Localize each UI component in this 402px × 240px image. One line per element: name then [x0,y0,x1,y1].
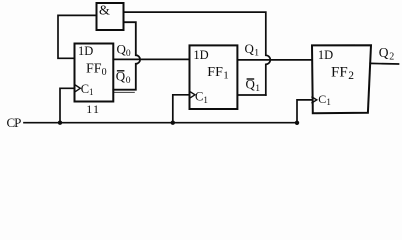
svg-text:1D: 1D [193,48,208,62]
clock edge triangle FF0 [75,85,81,93]
wire: ghost double line under Qbar0 wire [114,91,134,93]
clock edge triangle FF1 [190,91,196,98]
wire: Q2 output [370,62,398,65]
junction dot FF0 clock [58,121,62,125]
clock edge triangle FF2 [312,97,317,103]
svg-text:1D: 1D [318,48,333,62]
wire: Qbar0 feedback to AND lower input (with hop over Q0) [113,22,140,90]
svg-text:1D: 1D [78,44,93,58]
wire: Qbar1 feedback to AND top input (with hop over Q1) [124,12,271,95]
svg-text:CP: CP [7,115,22,130]
wire: AND output to FF0 1D input [58,15,97,58]
svg-text:&: & [99,3,110,18]
svg-text:11: 11 [86,102,100,116]
wire: CP bus line [24,122,297,124]
wire: Qbar1 out of FF1 [237,94,265,96]
wire: Q0 to FF1 1D [113,58,189,60]
wire: CP to FF0 clock [60,88,75,122]
AND gate U1 [97,3,124,30]
overbar of Q0 bar [117,70,125,72]
overbar of Q1 bar [247,78,255,80]
wire: CP to FF1 clock [173,95,190,123]
junction dot FF1 clock [171,121,175,125]
flip-flop FF1 box [190,45,238,109]
wire: Q1 to FF2 1D [237,59,312,61]
flip-flop FF0 box [75,44,114,102]
wire: CP to FF2 clock [297,100,312,123]
flip-flop FF2 box [312,45,371,113]
junction dot FF2 clock [295,121,299,125]
